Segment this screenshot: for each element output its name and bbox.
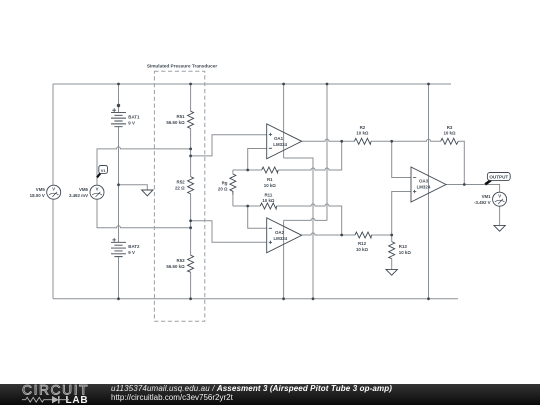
svg-text:LM324: LM324 [417,184,431,189]
wire OA3 plus input riser [392,192,411,236]
svg-text:R11: R11 [264,193,272,198]
svg-text:V: V [96,187,99,192]
wire OA1 Vminus route to rail [284,158,313,299]
node dot rail BAT1 [117,83,120,86]
svg-text:VM5: VM5 [36,187,46,192]
wire R52-R53 column [190,194,192,299]
wire OA1 minus input [248,149,267,171]
svg-text:V: V [52,187,55,192]
wire bridge mid to OA1 plus [191,135,267,156]
svg-text:LM324: LM324 [274,236,288,241]
flag V1 [97,166,108,178]
node dot rail OA2 V+ [326,83,329,86]
node dot rail OA3 V+ [427,83,430,86]
svg-text:Rg: Rg [222,181,228,186]
resistor Rg [230,174,236,195]
ground (R13) [386,269,397,275]
svg-text:OA1: OA1 [274,136,284,141]
voltmeter VM5 [47,185,61,199]
svg-text:OUTPUT: OUTPUT [489,175,508,180]
node dot OA1 minus junction [246,169,249,172]
svg-text:R2: R2 [360,125,366,130]
wire VM6 bottom to bridge low [97,199,191,228]
wire VM5 column [52,84,54,299]
battery BAT2 [111,238,126,257]
resistor R13 [389,242,395,259]
svg-text:R52: R52 [177,180,186,185]
wire R3 right down to output [458,141,464,184]
ground (battery midpoint) [142,190,153,196]
node dot rail OA1 V+ [282,83,285,86]
footer bar [0,384,540,405]
svg-text:20 Ω: 20 Ω [218,187,228,192]
voltmeter VM6 [90,185,104,199]
wire BAT1 top stub [118,84,120,112]
node dot rail OA1 V- [312,297,315,300]
svg-text:10 kΩ: 10 kΩ [356,131,369,136]
svg-text:R12: R12 [358,241,367,246]
wire bottom rail -9V [53,298,458,300]
wire R13 column [391,235,393,269]
node dot rail R51 [189,83,192,86]
svg-text:VM1: VM1 [482,194,492,199]
node dot OA2 minus junction [246,205,249,208]
node dot rail BAT2 [117,297,120,300]
resistor R51 [188,111,194,128]
node dot bridge mid in [189,148,192,151]
resistor R1 [262,167,278,173]
svg-text:LM324: LM324 [273,142,287,147]
svg-text:10 kΩ: 10 kΩ [264,183,277,188]
wire top rail +9V [53,83,451,85]
svg-text:10 kΩ: 10 kΩ [356,247,369,252]
node dot bridge low out [189,219,192,222]
wire OA1 Vplus supply [283,84,285,158]
svg-text:Simulated Pressure Transducer: Simulated Pressure Transducer [147,63,218,68]
footer text [111,384,392,402]
node dot OA1 output [340,140,343,143]
svg-text:56.60 kΩ: 56.60 kΩ [166,120,185,125]
wire OA2 output row to R12 [302,233,355,235]
wire R1 row left [233,169,262,171]
svg-text:R13: R13 [399,244,408,249]
wire OA1 output row to R2 [302,139,355,141]
node dot R12 right [390,234,393,237]
svg-text:10 kΩ: 10 kΩ [399,250,412,255]
svg-text:R3: R3 [447,125,453,130]
svg-text:VM6: VM6 [79,187,89,192]
wire OA2 supply through triangle [283,220,285,298]
svg-text:10 kΩ: 10 kΩ [443,131,456,136]
wire BAT2 bottom to rail [118,257,120,299]
svg-text:22 Ω: 22 Ω [175,186,185,191]
node dot OA2 output [340,234,343,237]
wire R12 right junction [372,234,392,236]
svg-text:3.492 mV: 3.492 mV [69,193,88,198]
resistor R12 [355,232,372,238]
wire battery midpoint to ground [119,185,148,190]
flag OUTPUT [485,173,510,185]
node dot battery midpoint ground tap [117,183,120,186]
wire R51 column [190,84,192,177]
svg-text:OA2: OA2 [275,230,285,235]
wire OA3 output to VM1 [446,185,500,193]
wire bridge low to OA2 plus [191,221,267,243]
node dot R2 right [390,140,393,143]
svg-text:9 V: 9 V [128,120,135,125]
dashed box Simulated Pressure Transducer [154,71,204,321]
wire R2 right to R3 left [371,139,441,141]
node dot OA3 output [463,183,466,186]
svg-text:V: V [498,194,501,199]
op-amp OA1 [267,124,302,159]
node dot rail R53 [189,297,192,300]
resistor R52 [188,177,194,194]
svg-text:BAT2: BAT2 [128,244,140,249]
wire OA3 supply column [428,84,430,299]
svg-text:56.60 kΩ: 56.60 kΩ [166,264,185,269]
wire OA2 Vplus route [284,84,327,220]
wire VM1 to ground [499,206,501,225]
svg-text:OA3: OA3 [419,178,429,183]
svg-text:-3.492 V: -3.492 V [474,200,491,205]
resistor R2 [354,138,371,144]
svg-text:10 kΩ: 10 kΩ [262,198,275,203]
node dot rail OA3 V- [427,297,430,300]
node dot bridge mid out [189,155,192,158]
svg-text:BAT1: BAT1 [128,115,140,120]
voltmeter VM1 [493,192,507,206]
wire Rg bottom [232,195,234,206]
resistor R3 [441,138,459,144]
svg-text:R53: R53 [177,258,186,263]
node dot rail OA2 V- [282,297,285,300]
svg-text:9 V: 9 V [128,250,135,255]
wire BAT1 bottom to BAT2 top [118,127,120,242]
wire VM6 top node to bridge mid [97,147,191,185]
wire OA2 minus input [248,206,267,228]
wire R11 row left [233,205,260,207]
battery BAT1 [111,108,126,126]
op-amp OA2 [267,218,302,253]
wire R11 row right (feedback to OA2 out) [277,204,342,235]
wire Rg top [232,170,234,174]
resistor R11 [260,203,276,209]
resistor R53 [188,255,194,272]
node dot BAT1 terminal [117,104,120,107]
op-amp OA3 [411,167,446,202]
svg-text:18.00 V: 18.00 V [30,193,45,198]
wire OA3 minus input drop [392,141,411,177]
svg-text:R1: R1 [267,177,273,182]
wire R1 row right (feedback to OA1 out) [278,141,342,170]
ground (VM1) [494,225,505,231]
svg-text:V1: V1 [101,168,107,173]
CircuitLab logo [22,384,112,405]
node dot bridge low in [189,226,192,229]
svg-text:R51: R51 [177,114,186,119]
